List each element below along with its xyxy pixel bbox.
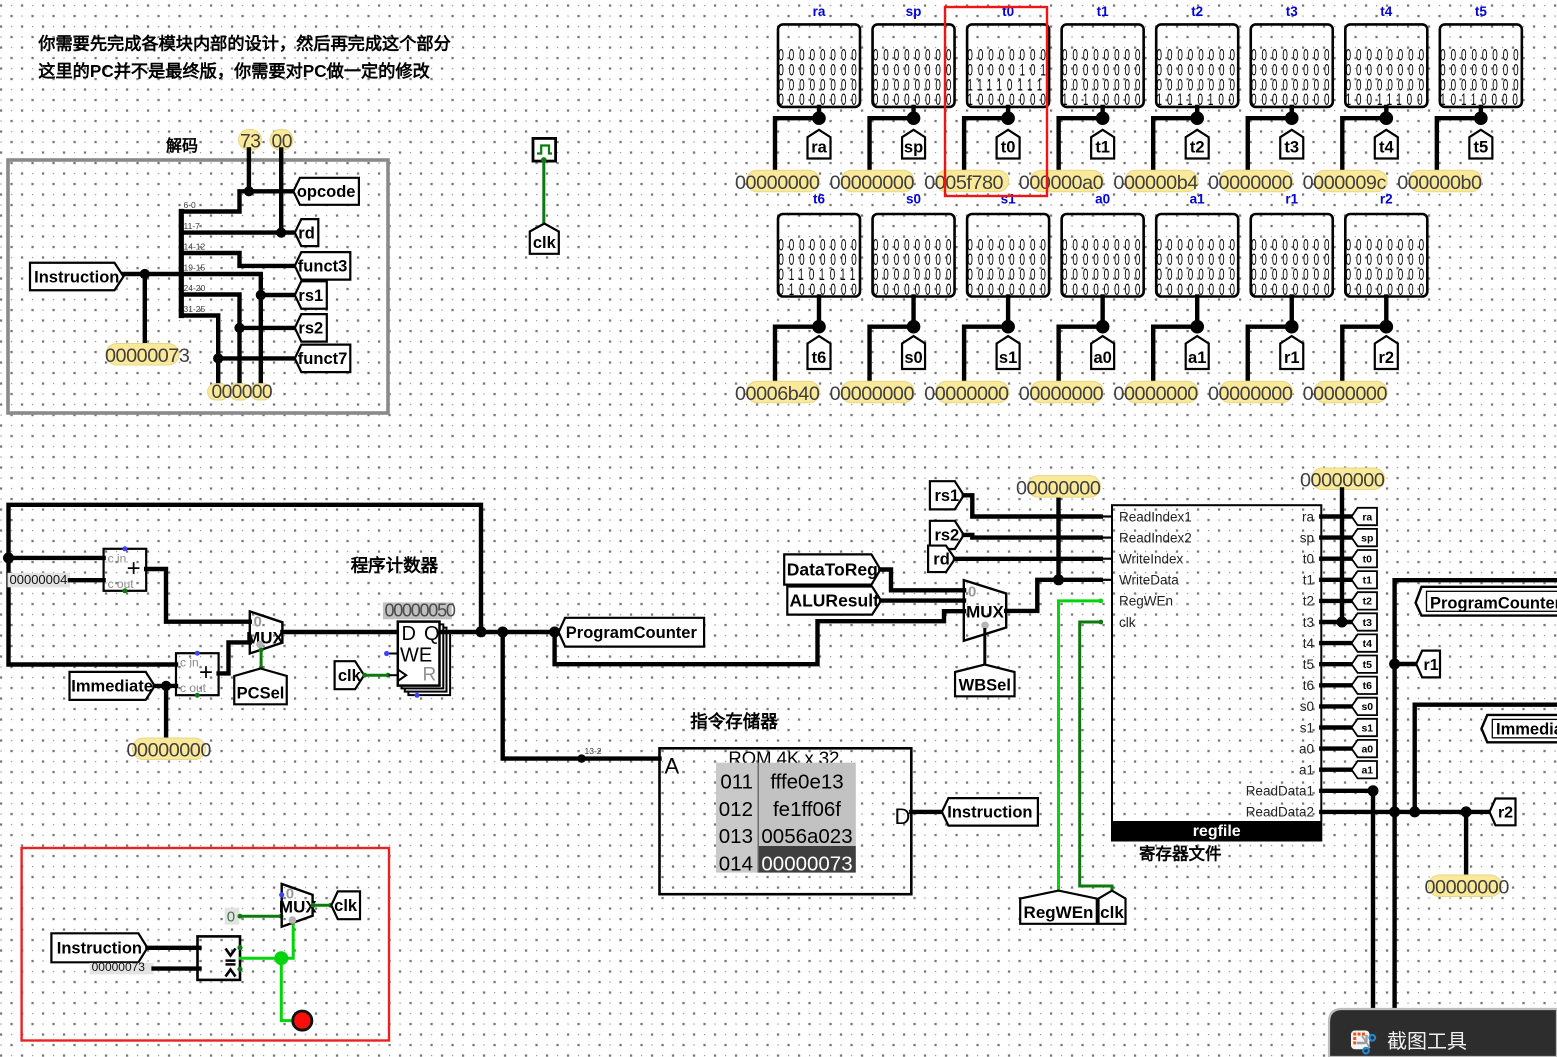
svg-text:ra: ra (1362, 511, 1372, 523)
svg-text:0056a023: 0056a023 (761, 825, 852, 848)
output pin t1 (1091, 130, 1114, 159)
wire Instruction to comparator (147, 946, 199, 950)
svg-text:D: D (402, 623, 416, 645)
svg-text:s1: s1 (1300, 720, 1314, 735)
svg-text:funct7: funct7 (298, 350, 348, 368)
svg-text:MUX: MUX (279, 898, 317, 917)
mux WBSel MUX (964, 580, 1006, 641)
output pin r1 (1280, 336, 1303, 369)
wire PC feedback top rail (9, 505, 482, 665)
svg-text:t5: t5 (1363, 659, 1372, 671)
junction t3 (1285, 111, 1299, 125)
value oval 73 (239, 130, 262, 151)
svg-text:ReadData2: ReadData2 (1246, 805, 1314, 820)
value oval r2 00000000 (1314, 381, 1387, 403)
wire a1 display to pin (1195, 297, 1199, 327)
junction ReadData2 x1414 (1409, 806, 1420, 817)
junction Immediate tap (161, 681, 171, 691)
wire r1 tap (1395, 662, 1417, 666)
svg-text:13-2: 13-2 (585, 746, 602, 756)
register display t1 box (1062, 24, 1144, 107)
register display sp box (873, 24, 955, 107)
wire Immediate value tap (164, 686, 168, 738)
svg-text:t1: t1 (1303, 573, 1314, 588)
svg-text:00000073: 00000073 (105, 345, 190, 367)
junction t1 (1096, 111, 1110, 125)
wire rs2 tap down (237, 328, 241, 383)
register display s1 box (967, 214, 1049, 297)
svg-text:rs1: rs1 (298, 287, 323, 305)
wire DataToReg to WBMUX in0 (880, 570, 964, 591)
wire ReadData2 (1321, 810, 1489, 814)
svg-text:clk: clk (338, 667, 362, 685)
snipping tool icon (1351, 1031, 1370, 1050)
svg-text:opcode: opcode (297, 183, 356, 201)
svg-text:t4: t4 (1380, 4, 1392, 19)
svg-text:ra: ra (811, 139, 827, 157)
value oval 00000000 (WriteData) (1028, 476, 1101, 498)
wire WriteData tap up (1056, 497, 1060, 580)
svg-text:t2: t2 (1191, 4, 1203, 19)
wire 00 to rd node (279, 150, 283, 233)
tunnels ra..a1 (right) (1352, 508, 1377, 525)
svg-text:t3: t3 (1284, 139, 1299, 157)
svg-text:t0: t0 (1001, 139, 1016, 157)
svg-text:RegWEn: RegWEn (1119, 594, 1173, 609)
svg-text:clk: clk (1100, 903, 1124, 922)
svg-text:ReadIndex2: ReadIndex2 (1119, 530, 1192, 545)
svg-text:a0: a0 (1299, 741, 1314, 756)
output pin funct7 (295, 345, 351, 373)
svg-text:t6: t6 (1363, 680, 1372, 692)
wire t2 display to pin (1195, 107, 1199, 118)
svg-text:014: 014 (719, 852, 753, 875)
wire s1 display to pin (1006, 297, 1010, 327)
value oval sp 00000000 (841, 170, 914, 192)
wire Immediate right rail (1415, 705, 1557, 812)
output pin t0 (997, 130, 1020, 159)
register PC (stacked) (408, 631, 450, 695)
wire Immediate to adder2 B (155, 684, 176, 688)
svg-text:a1: a1 (1188, 349, 1206, 367)
value oval t3 00000000 (1220, 170, 1293, 192)
wire s0 display to pin (911, 297, 915, 327)
junction r1 (1285, 320, 1299, 334)
svg-text:ProgramCounter: ProgramCounter (566, 624, 698, 642)
svg-text:t1: t1 (1363, 575, 1372, 587)
junction sp (907, 111, 921, 125)
wire MUX to register D (282, 630, 397, 634)
red selection rectangle around t0 (945, 7, 1047, 196)
mux PCSel MUX (250, 611, 283, 653)
LED (lit red) (293, 1011, 312, 1030)
output pin t3 (1280, 130, 1303, 159)
wire rs1 tap down (259, 295, 263, 383)
svg-text:rd: rd (298, 224, 315, 242)
svg-text:sp: sp (906, 4, 922, 19)
register display t3 box (1251, 24, 1333, 107)
adder PC+4 (104, 549, 147, 591)
svg-text:ReadIndex1: ReadIndex1 (1119, 509, 1192, 524)
svg-text:A: A (665, 754, 680, 779)
wire rs1 to ReadIndex1 (964, 495, 1101, 516)
input pin rd (928, 546, 955, 573)
wire ALUResult to WBMUX in1 (881, 598, 964, 602)
svg-text:rs2: rs2 (934, 527, 959, 545)
wire clk to regfile (dark green) (1080, 622, 1112, 891)
value oval 00000073 (decode) (106, 343, 179, 365)
splitter branch 24-20 to rs2 (181, 295, 294, 328)
value oval t6 00006b40 (747, 381, 820, 403)
register display ra box (778, 24, 860, 107)
output pin rd (295, 219, 319, 246)
test mux unconnected in0 (279, 892, 284, 897)
value oval a0 00000000 (1030, 381, 1103, 403)
svg-text:00000000: 00000000 (830, 172, 915, 194)
wire ROM D to Instruction pin (911, 810, 942, 814)
svg-text:s0: s0 (906, 192, 921, 207)
splitter branch 19-15 to rs1 (181, 274, 294, 295)
wire Instruction to splitter trunk (124, 272, 182, 276)
register display t6 box (778, 214, 860, 297)
wire ReadData2 value tap down (1464, 812, 1468, 875)
svg-text:00000000: 00000000 (1303, 383, 1388, 405)
svg-text:RegWEn: RegWEn (1024, 903, 1094, 922)
svg-text:t6: t6 (1303, 678, 1314, 693)
register display a1 box (1156, 214, 1238, 297)
ROM address column (716, 763, 758, 873)
svg-text:00000000: 00000000 (1208, 383, 1293, 405)
svg-text:指令存储器: 指令存储器 (690, 712, 778, 732)
output pin t2 (1186, 130, 1209, 159)
svg-text:a0: a0 (1095, 192, 1110, 207)
splitter branch 14-12 to funct3 (181, 253, 294, 266)
svg-text:00000000: 00000000 (1425, 877, 1510, 899)
wire t1 display to pin (1100, 107, 1104, 118)
svg-text:t2: t2 (1303, 594, 1314, 609)
junction on Instruction wire (140, 269, 150, 279)
svg-text:000000b4: 000000b4 (1113, 172, 1198, 194)
tunnel RegWEn (bottom) (1020, 891, 1097, 924)
svg-text:WBSel: WBSel (959, 676, 1011, 694)
svg-text:s0: s0 (904, 349, 922, 367)
value oval t0 0005f780 (936, 170, 1009, 192)
junction rs2 (234, 323, 244, 333)
splitter branch 11-7 to rd (181, 230, 294, 234)
output pin t5 (1469, 130, 1492, 159)
ROM data column (758, 763, 856, 846)
wire WBSel select (983, 630, 986, 666)
svg-text:程序计数器: 程序计数器 (351, 556, 439, 576)
svg-text:ReadData1: ReadData1 (1246, 784, 1314, 799)
tunnel clk (bottom) (1099, 891, 1126, 924)
junction funct7 (213, 353, 223, 363)
svg-text:rs1: rs1 (934, 487, 959, 505)
svg-text:a0: a0 (1361, 743, 1373, 755)
input pin Immediate (PC) (70, 672, 155, 700)
svg-text:24-20: 24-20 (184, 283, 206, 293)
svg-text:t4: t4 (1303, 636, 1315, 651)
svg-text:00000073: 00000073 (92, 960, 146, 974)
svg-text:WriteData: WriteData (1119, 573, 1179, 588)
svg-text:00000004: 00000004 (10, 572, 68, 587)
svg-text:MUX: MUX (966, 603, 1004, 622)
svg-text:ra: ra (1302, 509, 1314, 524)
svg-text:r2: r2 (1380, 192, 1393, 207)
svg-text:011: 011 (720, 771, 753, 794)
svg-text:0: 0 (227, 909, 235, 926)
wire t0 display to pin (1006, 107, 1010, 118)
junction Q to ROM branch (497, 627, 508, 638)
svg-text:00000000: 00000000 (735, 172, 820, 194)
svg-text:fffe0e13: fffe0e13 (770, 771, 843, 794)
svg-text:t3: t3 (1363, 617, 1372, 629)
svg-text:截图工具: 截图工具 (1387, 1030, 1467, 1053)
value oval t2 000000b4 (1125, 170, 1198, 192)
svg-text:012: 012 (719, 798, 753, 821)
junction t3 (1337, 617, 1348, 628)
input pin rs2 (930, 521, 964, 549)
svg-text:t6: t6 (812, 349, 827, 367)
junction a1 (1190, 320, 1204, 334)
wire adder2 out to MUX in1 (219, 642, 250, 673)
svg-text:t5: t5 (1475, 4, 1487, 19)
svg-text:+: + (127, 555, 141, 582)
wire t5 display to pin (1479, 107, 1483, 118)
tunnel WBSel (955, 665, 1015, 697)
junction t0 (1001, 111, 1015, 125)
junction a0 (1096, 320, 1110, 334)
adder PC+Imm (176, 653, 219, 695)
svg-text:00000000: 00000000 (1208, 172, 1293, 194)
regfile box (1112, 505, 1321, 840)
constant 00000073 (90, 963, 154, 974)
svg-text:Instruction: Instruction (34, 268, 119, 286)
svg-text:t0: t0 (1363, 553, 1372, 565)
svg-text:DataToReg: DataToReg (787, 560, 878, 580)
snipping tool notification (1329, 1009, 1557, 1057)
svg-text:ProgramCounter: ProgramCounter (1430, 595, 1557, 613)
junction r1 tap (1389, 659, 1400, 670)
value oval r1 00000000 (1220, 381, 1293, 403)
svg-text:00000000: 00000000 (1113, 383, 1198, 405)
value oval t1 000000a0 (1030, 170, 1103, 192)
value oval t5 000000b0 (1409, 170, 1482, 192)
junction left rail adder1 (3, 552, 14, 563)
svg-text:Immediate: Immediate (71, 678, 153, 696)
output pin s1 (997, 336, 1020, 369)
svg-text:t1: t1 (1095, 139, 1110, 157)
svg-text:6-0: 6-0 (184, 200, 197, 210)
svg-text:rd: rd (933, 551, 950, 569)
svg-text:s1: s1 (999, 349, 1017, 367)
splitter branch 6-0 to opcode (181, 191, 293, 211)
svg-text:MUX: MUX (246, 629, 284, 648)
output pin s0 (902, 336, 925, 369)
svg-text:000000a0: 000000a0 (1019, 172, 1104, 194)
svg-text:WriteIndex: WriteIndex (1119, 552, 1184, 567)
svg-text:00000000: 00000000 (1016, 477, 1101, 499)
svg-text:00000000: 00000000 (924, 383, 1009, 405)
svg-text:fe1ff06f: fe1ff06f (773, 798, 841, 821)
svg-text:c in: c in (108, 551, 127, 565)
value oval 00000000 (r2 tap) (1429, 875, 1502, 897)
svg-text:19-15: 19-15 (184, 263, 206, 273)
svg-text:你需要先完成各模块内部的设计，然后再完成这个部分: 你需要先完成各模块内部的设计，然后再完成这个部分 (37, 34, 451, 54)
svg-text:t5: t5 (1474, 139, 1489, 157)
svg-text:00000000: 00000000 (1019, 383, 1104, 405)
svg-text:0: 0 (968, 584, 976, 601)
regfile port stubs left (1101, 515, 1112, 517)
wire ra display to pin (817, 107, 821, 118)
svg-text:00000000: 00000000 (830, 383, 915, 405)
svg-text:clk: clk (533, 234, 557, 252)
svg-text:0005f780: 0005f780 (924, 172, 1003, 194)
junction r2 (1380, 320, 1394, 334)
junction t6 (812, 320, 826, 334)
svg-text:t3: t3 (1303, 615, 1314, 630)
comparator A=B (198, 936, 241, 980)
junction WriteData value tap (1053, 574, 1064, 585)
output pin sp (902, 130, 925, 159)
comparator unused outputs (237, 945, 242, 950)
wire PCSel select (260, 650, 263, 669)
ROM selected row highlight (758, 846, 856, 873)
output pin Instruction (ROM) (942, 798, 1038, 826)
wire constant 0 to mux (239, 915, 281, 918)
mux test MUX (282, 884, 313, 927)
junction t5 (1474, 111, 1488, 125)
junction equal signal (274, 951, 288, 965)
value oval ra 00000000 (747, 170, 820, 192)
register display t2 box (1156, 24, 1238, 107)
input pin clk (PC) (335, 661, 365, 689)
output pin t6 (808, 336, 831, 369)
svg-text:sp: sp (1300, 530, 1314, 545)
regfile output stubs and wires (1321, 514, 1351, 518)
junction rs1 (256, 290, 266, 300)
svg-text:00006b40: 00006b40 (735, 383, 820, 405)
red test box (22, 848, 389, 1041)
wire PC to regfile WBMUX (555, 611, 964, 664)
svg-text:00000050: 00000050 (385, 600, 456, 620)
wire Instruction value tap (143, 274, 147, 345)
wire t6 display to pin (817, 297, 821, 327)
wire WBMUX out to WriteData (1006, 580, 1101, 611)
value oval 00 (270, 130, 293, 151)
junction rd (276, 228, 286, 238)
svg-text:a0: a0 (1093, 349, 1111, 367)
input pin Instruction (test) (51, 933, 147, 962)
svg-text:funct3: funct3 (298, 258, 348, 276)
register display t4 box (1345, 24, 1427, 107)
output pin t4 (1375, 130, 1398, 159)
svg-text:clk: clk (334, 897, 358, 915)
output pin rs1 (295, 281, 327, 309)
svg-text:s1: s1 (1361, 722, 1373, 734)
svg-text:t5: t5 (1303, 657, 1314, 672)
wire ReadData2 down to edge (1392, 812, 1396, 1012)
value oval s1 00000000 (936, 381, 1009, 403)
svg-text:000000b0: 000000b0 (1397, 172, 1482, 194)
output pin opcode (293, 178, 359, 205)
wire rs2 to ReadIndex2 (964, 535, 1101, 538)
output pin a0 (1091, 336, 1114, 369)
register display t5 box (1440, 24, 1522, 107)
wire test mux out to clk pin (313, 904, 332, 907)
svg-text:Instruction: Instruction (57, 940, 142, 958)
wire sp display to pin (911, 107, 915, 118)
svg-text:rs2: rs2 (298, 320, 323, 338)
svg-text:s0: s0 (1300, 699, 1314, 714)
register display r1 box (1251, 214, 1333, 297)
wire rd to WriteIndex (955, 557, 1101, 561)
output pin ProgramCounter (right edge) (1416, 587, 1557, 616)
junction s0 (907, 320, 921, 334)
svg-text:t6: t6 (813, 192, 825, 207)
svg-text:00000000: 00000000 (127, 740, 212, 762)
svg-text:t4: t4 (1379, 139, 1394, 157)
output pin ra (808, 130, 831, 159)
junction ReadData1 (1368, 785, 1379, 796)
svg-text:14-12: 14-12 (184, 242, 206, 252)
svg-text:t0: t0 (1303, 552, 1314, 567)
svg-text:寄存器文件: 寄存器文件 (1139, 844, 1222, 864)
register display a0 box (1062, 214, 1144, 297)
wire value tap to t3 row (1340, 490, 1344, 623)
wire constant 4 to adder1 B (70, 578, 104, 582)
ROM 4K x 32 (660, 748, 912, 894)
tunnel PCSel (234, 669, 287, 705)
svg-text:ALUResult: ALUResult (789, 591, 879, 611)
svg-text:a1: a1 (1299, 763, 1314, 778)
value oval a1 00000000 (1125, 381, 1198, 403)
wire funct7 tap down (216, 358, 220, 383)
svg-text:31-25: 31-25 (184, 304, 206, 314)
splitter branch 31-25 to funct7 (181, 316, 294, 359)
junction t2 (1190, 111, 1204, 125)
wire t4 display to pin (1384, 107, 1388, 118)
svg-text:sp: sp (1361, 532, 1373, 544)
svg-text:s0: s0 (1361, 701, 1373, 713)
svg-text:11-7: 11-7 (184, 221, 201, 231)
output pin Immediate (right edge) (1482, 715, 1557, 742)
register display t0 box (967, 24, 1049, 107)
svg-text:000000: 000000 (212, 382, 272, 403)
svg-text:00000073: 00000073 (761, 852, 852, 875)
svg-text:r2: r2 (1378, 349, 1394, 367)
junction t4 (1380, 111, 1394, 125)
output pin ProgramCounter (left) (559, 618, 705, 647)
junction ra (812, 111, 826, 125)
wire RegWEn (green) (1059, 601, 1101, 891)
svg-text:c in: c in (180, 656, 199, 670)
svg-text:r1: r1 (1284, 349, 1300, 367)
svg-text:t2: t2 (1190, 139, 1205, 157)
junction Q to PC pin (549, 627, 560, 638)
input pin DataToReg (784, 554, 880, 584)
constant 00000004 (8, 573, 71, 588)
input pin rs1 (930, 481, 964, 509)
wire 73 to opcode node (247, 150, 251, 192)
wire register Q out (441, 630, 559, 634)
svg-text:0000009c: 0000009c (1303, 172, 1387, 194)
svg-text:regfile: regfile (1193, 823, 1241, 840)
svg-text:Instruction: Instruction (947, 804, 1032, 822)
svg-text:t2: t2 (1363, 596, 1372, 608)
register display r2 box (1345, 214, 1427, 297)
wire Q down to ROM A (503, 632, 660, 759)
